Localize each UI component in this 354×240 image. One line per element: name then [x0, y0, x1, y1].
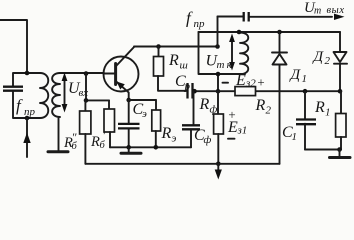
- svg-text:ф: ф: [204, 134, 212, 146]
- svg-text:R: R: [199, 96, 210, 113]
- svg-text:т: т: [314, 6, 321, 17]
- svg-text:э: э: [172, 133, 177, 145]
- svg-text:+: +: [257, 75, 266, 90]
- svg-text:2: 2: [325, 55, 331, 67]
- svg-text:1: 1: [325, 107, 331, 119]
- svg-text:R: R: [90, 134, 100, 150]
- svg-text:R: R: [161, 125, 172, 142]
- svg-text:ф: ф: [210, 104, 218, 116]
- svg-text:вых: вых: [327, 5, 345, 16]
- svg-text:ш: ш: [180, 60, 188, 72]
- svg-text:R: R: [255, 97, 266, 114]
- svg-text:э: э: [142, 108, 147, 120]
- svg-text:1: 1: [302, 73, 308, 85]
- svg-text:R: R: [168, 52, 179, 69]
- svg-text:з2: з2: [245, 78, 256, 90]
- svg-text:2: 2: [266, 105, 272, 117]
- svg-text:з1: з1: [237, 125, 248, 137]
- svg-text:Д: Д: [312, 49, 325, 65]
- svg-text:R: R: [314, 99, 325, 116]
- svg-text:тк: тк: [217, 59, 235, 71]
- svg-text:Д: Д: [289, 67, 302, 83]
- svg-text:E: E: [235, 72, 246, 89]
- svg-text:E: E: [227, 119, 238, 136]
- svg-text:1: 1: [292, 131, 298, 143]
- svg-text:р: р: [184, 81, 191, 93]
- svg-text:пр: пр: [194, 18, 206, 30]
- svg-text:′: ′: [103, 128, 106, 142]
- svg-text:пр: пр: [24, 106, 36, 118]
